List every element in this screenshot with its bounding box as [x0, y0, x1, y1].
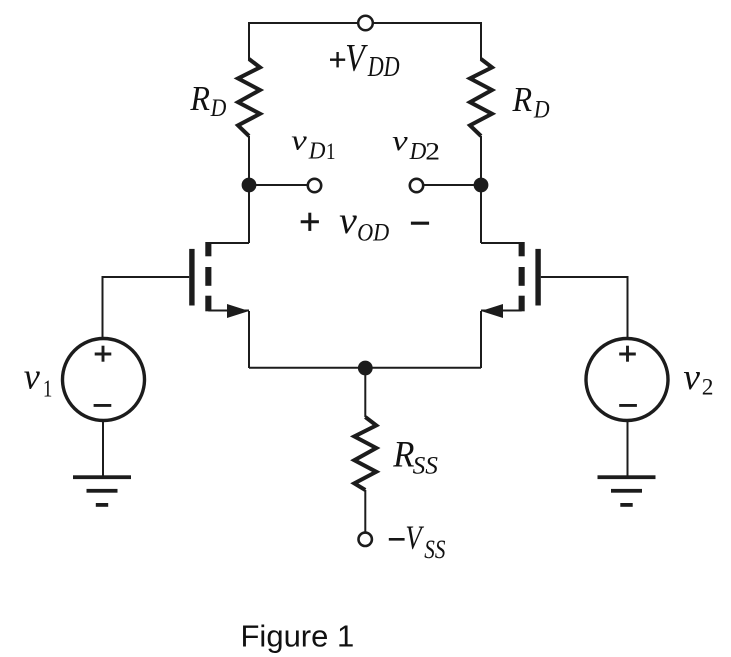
svg-text:2: 2: [425, 139, 440, 166]
wire RSS to terminal: [364, 490, 366, 532]
svg-text:D: D: [409, 138, 427, 165]
svg-text:Figure 1: Figure 1: [241, 619, 355, 654]
label VDD: [345, 37, 399, 84]
wire gate left: [103, 277, 190, 337]
wire source right down: [480, 311, 482, 368]
wire to vD1 terminal: [249, 184, 307, 186]
source v1: [63, 339, 145, 421]
wire right drain branch upper: [480, 22, 482, 60]
label RD left: [189, 79, 226, 122]
ground left: [73, 475, 131, 507]
label RSS: [392, 434, 438, 480]
resistor RD right: [470, 59, 492, 136]
ground right: [598, 475, 656, 507]
label vOD plus sign: [301, 213, 319, 231]
svg-text:OD: OD: [357, 219, 389, 246]
label RD right: [512, 80, 550, 124]
wire left drain branch upper: [248, 22, 250, 60]
wire source left down: [248, 311, 250, 368]
node common source: [358, 361, 373, 376]
wire v2 to ground: [627, 421, 629, 478]
wire common source rail: [249, 367, 481, 369]
svg-text:SS: SS: [413, 450, 438, 479]
node drain left: [242, 178, 257, 193]
svg-text:1: 1: [326, 139, 336, 165]
svg-text:v: v: [24, 357, 40, 398]
svg-text:v: v: [291, 125, 307, 156]
label v2: [683, 357, 713, 400]
wire top rail VDD: [249, 22, 481, 24]
svg-text:R: R: [189, 79, 210, 118]
label vD2: [392, 126, 440, 166]
terminal vD1: [308, 179, 321, 192]
label vD1: [291, 125, 335, 165]
svg-text:v: v: [683, 357, 700, 398]
source v2: [586, 339, 668, 421]
svg-text:DD: DD: [367, 51, 400, 83]
label -VSS minus sign: [389, 538, 405, 541]
svg-text:1: 1: [43, 375, 53, 402]
resistor RSS: [354, 417, 376, 490]
terminal vD2: [410, 179, 423, 192]
svg-text:v: v: [339, 201, 357, 242]
label vOD: [339, 201, 389, 247]
transistor Q2: [481, 242, 541, 318]
svg-text:D: D: [308, 138, 326, 165]
label +VDD plus sign: [330, 52, 345, 67]
transistor Q1: [189, 242, 249, 318]
label v1: [24, 357, 53, 403]
svg-text:SS: SS: [424, 535, 445, 564]
svg-text:2: 2: [702, 375, 714, 401]
wire node to RSS: [364, 368, 366, 417]
svg-text:v: v: [392, 126, 408, 157]
resistor RD left: [238, 59, 260, 136]
label VSS: [405, 520, 445, 565]
label vOD minus sign: [411, 222, 429, 225]
svg-text:D: D: [210, 93, 227, 122]
svg-text:V: V: [405, 520, 424, 557]
svg-text:D: D: [533, 94, 550, 123]
svg-text:V: V: [345, 37, 368, 80]
wire to vD2 terminal: [424, 184, 481, 186]
terminal +VDD: [358, 16, 373, 31]
wire v1 to ground: [102, 421, 104, 478]
wire left drain to transistor: [248, 136, 250, 243]
svg-text:R: R: [392, 434, 414, 475]
wire gate right: [541, 277, 628, 337]
terminal -VSS: [359, 533, 372, 546]
node drain right: [474, 178, 489, 193]
wire right drain to transistor: [480, 136, 482, 243]
svg-text:R: R: [512, 80, 533, 119]
